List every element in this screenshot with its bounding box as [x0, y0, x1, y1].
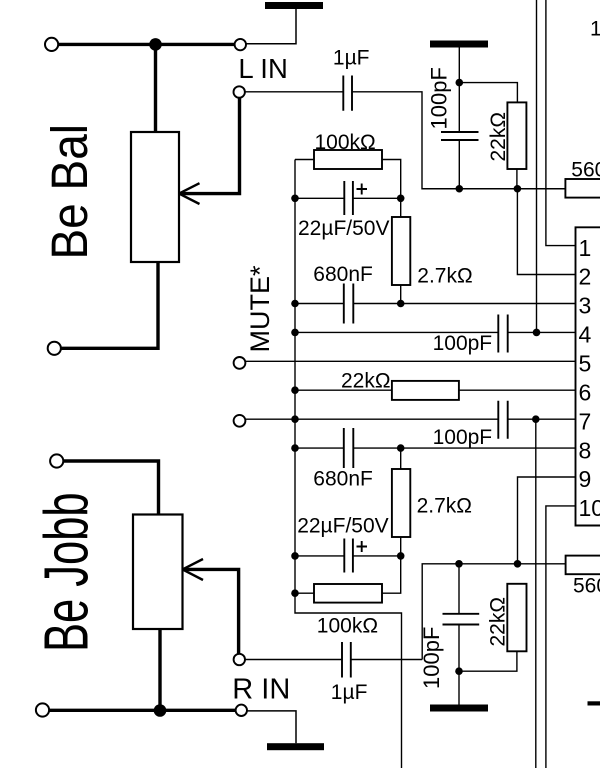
wire to ground bottom-right: [458, 671, 460, 704]
svg-text:L IN: L IN: [238, 53, 287, 84]
polarity plus C3: [357, 184, 368, 195]
svg-text:R IN: R IN: [232, 673, 290, 705]
wire R6 top: [400, 448, 402, 469]
wire pin9: [518, 477, 576, 564]
arrowhead P1 wiper: [179, 183, 200, 204]
svg-text:4: 4: [579, 322, 592, 348]
svg-text:1µF: 1µF: [331, 681, 368, 704]
wire R9 bottom: [459, 651, 517, 671]
capacitor C7 680nF plates: [344, 428, 354, 468]
capacitor C4 680nF plates: [344, 284, 354, 324]
svg-text:22kΩ: 22kΩ: [487, 597, 510, 647]
resistor R7 100k bottom: [314, 584, 382, 603]
node R IN lower terminal: [236, 705, 247, 716]
capacitor C5 100pF plates: [498, 315, 507, 353]
svg-text:2: 2: [579, 264, 592, 290]
wire L IN upper to ground stem: [246, 9, 296, 44]
junction C10 top: [455, 560, 463, 568]
wire ground to junction: [458, 48, 460, 83]
node P2 top terminal: [50, 454, 63, 467]
potentiometer P1 (Be Bal) body: [131, 132, 179, 262]
wire pin7 row: [245, 418, 575, 420]
svg-text:22µF/50V: 22µF/50V: [298, 217, 390, 240]
wire R IN lower to ground: [247, 711, 296, 743]
junction C2 bottom: [456, 185, 464, 193]
capacitor C6 100pF plates: [498, 401, 507, 439]
wire R6 bottom: [400, 537, 402, 556]
ground bar bottom-left: [267, 743, 324, 750]
junction 22uF bottom right: [397, 552, 405, 560]
wire P2 bottom to junction: [158, 629, 161, 711]
junction 22uF row right: [397, 195, 405, 203]
junction pin8 row left: [291, 444, 299, 452]
capacitor C10 100pF plates: [443, 614, 480, 625]
node pin7 terminal: [234, 415, 246, 427]
svg-text:100pF: 100pF: [419, 627, 444, 689]
junction R9 top: [514, 560, 522, 568]
wire C9 up to bottom row: [422, 564, 565, 660]
ground bar top-left: [265, 2, 323, 9]
resistor R3 560: [565, 179, 600, 198]
svg-text:1: 1: [590, 17, 600, 40]
svg-text:560: 560: [573, 575, 600, 598]
junction pin4 bus: [533, 329, 541, 337]
svg-text:100pF: 100pF: [433, 332, 493, 355]
wire R4 top: [400, 198, 402, 217]
junction on L jack wire: [149, 38, 162, 51]
resistor R6 2.7k bottom vertical: [392, 469, 410, 537]
bus wire to pin4: [536, 0, 538, 332]
resistor R4 2.7k top vertical: [392, 217, 410, 285]
svg-text:100pF: 100pF: [433, 426, 493, 449]
svg-text:22µF/50V: 22µF/50V: [297, 515, 389, 538]
svg-text:5: 5: [579, 351, 592, 377]
bus wire left rail x295: [295, 160, 402, 768]
node MUTE terminal: [234, 357, 246, 369]
svg-text:Be Bal: Be Bal: [42, 124, 99, 260]
wire P2 wiper: [183, 569, 239, 653]
wire C1 to node A: [352, 92, 459, 189]
wire R7 left: [295, 592, 314, 594]
capacitor C3 22uF plates: [344, 181, 353, 215]
capacitor C2 100pF plates: [441, 132, 479, 140]
junction pin3 row R4: [397, 300, 405, 308]
junction R2 bottom: [514, 185, 522, 193]
wire pin2 from R2 bottom junction: [517, 189, 575, 275]
junction R7 left rail: [291, 589, 299, 597]
junction pin7 row left: [291, 415, 299, 423]
wire C2 stems: [458, 83, 460, 189]
junction on R jack wire: [154, 704, 167, 717]
resistor R8 560 bottom: [566, 556, 600, 575]
IC U1 box: [576, 227, 600, 525]
wire R jack to R IN: [49, 709, 236, 712]
junction top of C2: [456, 79, 464, 87]
resistor R5 22k horizontal: [392, 381, 459, 400]
arrowhead P2 wiper: [183, 559, 204, 580]
node P1 bottom terminal: [48, 342, 61, 355]
capacitor C1 1uF plates: [343, 76, 352, 111]
svg-text:100kΩ: 100kΩ: [315, 131, 376, 154]
svg-text:3: 3: [579, 293, 592, 319]
svg-text:9: 9: [579, 466, 592, 492]
svg-text:2.7kΩ: 2.7kΩ: [417, 494, 472, 517]
wire pin8 row: [295, 447, 576, 449]
wire R2 bottom: [516, 169, 518, 189]
wire pin5 row: [245, 360, 575, 362]
wire 22uF row: [295, 197, 401, 199]
wire P1 wiper: [179, 98, 240, 194]
junction pin3 row left: [291, 300, 299, 308]
svg-text:8: 8: [579, 437, 592, 463]
svg-text:22kΩ: 22kΩ: [341, 370, 391, 393]
wire junction to R2 top: [459, 83, 517, 103]
junction pin4 row left: [291, 329, 299, 337]
junction pin7 bus: [532, 415, 540, 423]
svg-text:Be Jobb: Be Jobb: [33, 492, 101, 652]
svg-text:2.7kΩ: 2.7kΩ: [417, 265, 472, 288]
ground bar bottom-right: [430, 705, 488, 712]
svg-text:6: 6: [579, 379, 592, 405]
wire node A to R3: [459, 188, 565, 190]
wire 22uF bottom row: [295, 555, 401, 557]
node L input jack terminal: [45, 38, 58, 51]
svg-text:22kΩ: 22kΩ: [487, 112, 510, 162]
wire pin6 row: [295, 389, 576, 391]
node L IN upper terminal: [235, 39, 246, 50]
node R IN upper terminal: [234, 654, 245, 665]
wire pin3 row: [295, 303, 576, 305]
polarity plus C8: [357, 541, 368, 552]
svg-text:100pF: 100pF: [427, 67, 452, 129]
wire R IN row: [245, 659, 422, 661]
wire C10 stems: [458, 564, 460, 671]
wire R4 bottom: [400, 285, 402, 304]
junction rail 22uF row left: [291, 195, 299, 203]
wire R7 right: [382, 556, 401, 593]
svg-text:560: 560: [571, 158, 600, 181]
svg-text:1: 1: [579, 235, 592, 261]
potentiometer P2 (Be Jobb) body: [133, 515, 183, 630]
wire pin4 row: [295, 331, 576, 333]
wire L jack to L IN top: [58, 43, 234, 46]
bus wire pin7 down: [535, 419, 537, 768]
resistor R1 100k top: [314, 150, 382, 169]
capacitor C9 1uF plates: [342, 642, 351, 678]
capacitor C8 22uF plates: [344, 539, 353, 573]
resistor R9 22k bottom vertical: [507, 584, 526, 652]
wire P2 top terminal to pot: [63, 461, 158, 515]
wire P1 bottom terminal to pot: [61, 262, 158, 348]
wire R1 right: [382, 160, 401, 199]
wire R1 left: [295, 159, 314, 161]
junction pin8 row R6: [397, 444, 405, 452]
svg-text:100kΩ: 100kΩ: [317, 614, 378, 637]
svg-text:7: 7: [579, 408, 592, 434]
wire junction down to pot P1 top: [154, 44, 157, 132]
junction C10 bottom: [455, 667, 463, 675]
pin labels 1-10: [579, 235, 600, 521]
node R jack terminal: [36, 703, 49, 716]
junction pin6 row left: [291, 386, 299, 394]
wire L IN lower to capacitor C1: [245, 91, 343, 93]
svg-text:680nF: 680nF: [313, 263, 373, 286]
node L IN lower terminal: [234, 86, 245, 97]
bus wire to pin1: [546, 0, 576, 246]
wire pin10: [546, 506, 576, 768]
svg-text:MUTE*: MUTE*: [245, 265, 275, 352]
ground bar top-right: [430, 41, 488, 48]
svg-text:680nF: 680nF: [313, 467, 373, 490]
partial bar bottom right edge: [588, 701, 600, 705]
svg-text:10: 10: [579, 495, 600, 521]
junction 22uF bottom left: [291, 552, 299, 560]
resistor R2 22k vertical: [507, 102, 526, 169]
svg-text:1µF: 1µF: [333, 46, 370, 69]
